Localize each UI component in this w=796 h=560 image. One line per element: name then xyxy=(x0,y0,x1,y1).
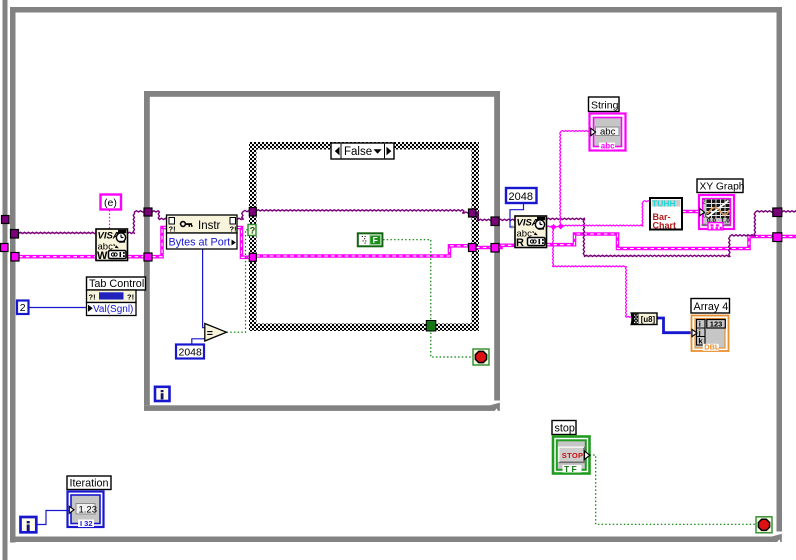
svg-text:F: F xyxy=(373,235,378,245)
svg-text:DBL: DBL xyxy=(704,343,720,352)
svg-text:R: R xyxy=(516,237,524,249)
svg-text:?!: ?! xyxy=(127,293,134,302)
svg-text:False: False xyxy=(344,146,372,158)
svg-text:=: = xyxy=(207,327,213,339)
svg-text:Instr: Instr xyxy=(198,220,221,232)
svg-text:?!: ?! xyxy=(230,225,237,234)
svg-text:2: 2 xyxy=(20,302,26,314)
svg-text:1.23: 1.23 xyxy=(79,505,98,516)
svg-text:Chart: Chart xyxy=(653,221,677,231)
svg-text:?: ? xyxy=(250,226,256,236)
svg-text:Tab Control: Tab Control xyxy=(89,278,144,290)
svg-text:abc: abc xyxy=(601,142,615,151)
svg-text:2048: 2048 xyxy=(509,191,533,203)
svg-text:Array 4: Array 4 xyxy=(694,301,729,313)
svg-text:W: W xyxy=(97,250,108,262)
svg-text:Val(Sgnl): Val(Sgnl) xyxy=(93,304,133,315)
svg-text:[u8]: [u8] xyxy=(641,315,656,324)
svg-text:I 32: I 32 xyxy=(80,519,93,528)
svg-text:abc: abc xyxy=(600,127,616,138)
svg-text:2048: 2048 xyxy=(179,347,203,359)
svg-text:123: 123 xyxy=(710,320,723,329)
svg-text:TUHH: TUHH xyxy=(652,199,676,209)
svg-text:STOP: STOP xyxy=(562,451,583,460)
svg-text:(e): (e) xyxy=(104,197,117,209)
svg-text:?!: ?! xyxy=(89,293,96,302)
svg-text:stop: stop xyxy=(555,423,575,435)
svg-text:?!: ?! xyxy=(169,225,176,234)
svg-text:Bytes at Port: Bytes at Port xyxy=(169,237,231,249)
svg-text:T F: T F xyxy=(564,464,577,474)
svg-text:Iteration: Iteration xyxy=(70,478,109,490)
svg-text:XY Graph: XY Graph xyxy=(700,182,745,193)
svg-text:String: String xyxy=(591,100,619,112)
